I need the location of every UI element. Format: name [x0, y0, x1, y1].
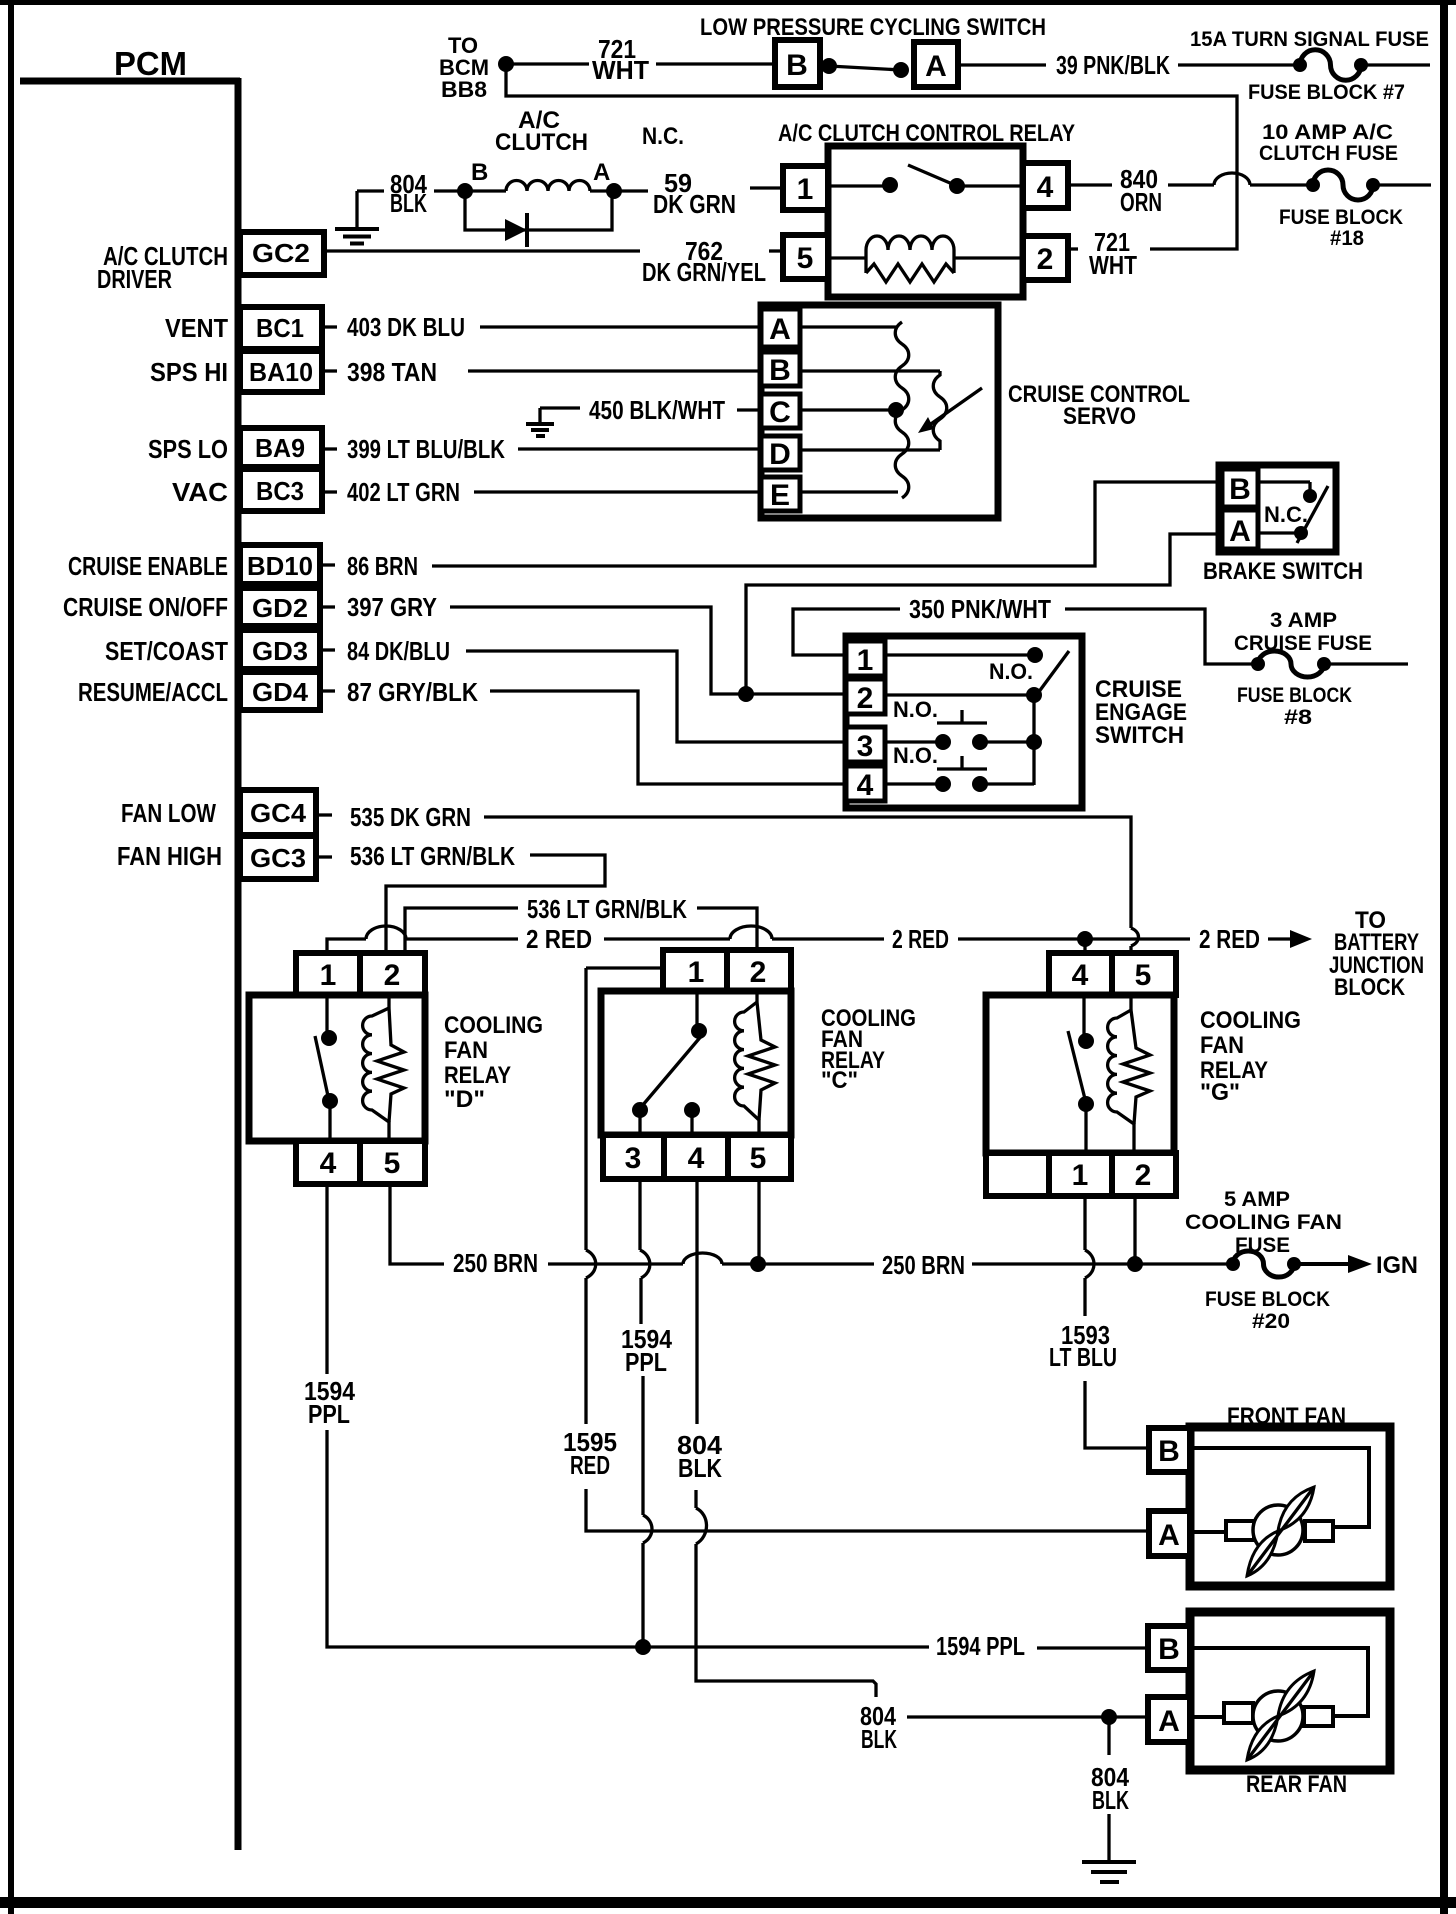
pin BD10 CRUISE ENABLE — [240, 545, 335, 584]
svg-text:1: 1 — [688, 956, 705, 989]
svg-text:A: A — [1158, 1519, 1180, 1552]
svg-text:A: A — [925, 50, 947, 83]
svg-text:ORN: ORN — [1120, 187, 1162, 217]
wire relay C pin 1 feed — [586, 966, 663, 969]
label 59 DK GRN — [653, 168, 783, 219]
svg-text:C: C — [769, 396, 791, 429]
svg-text:BC3: BC3 — [256, 476, 304, 506]
label 840 ORN — [1068, 164, 1214, 217]
wire 721 WHT pin2 — [1065, 227, 1137, 280]
svg-text:3: 3 — [857, 730, 874, 763]
svg-text:BLOCK: BLOCK — [1334, 974, 1406, 1001]
fuse 10 amp A/C clutch — [1306, 170, 1431, 200]
svg-text:1594 PPL: 1594 PPL — [936, 1631, 1025, 1661]
rear fan motor — [1148, 1612, 1390, 1770]
svg-text:3 AMP: 3 AMP — [1270, 609, 1337, 632]
svg-text:COOLING FAN: COOLING FAN — [1185, 1211, 1342, 1234]
svg-text:B: B — [1229, 473, 1251, 506]
wire 1594 PPL from relay D pin 4 — [304, 1184, 636, 1647]
svg-text:#20: #20 — [1252, 1310, 1290, 1333]
pin GD4 RESUME/ACCL — [240, 672, 335, 710]
svg-text:DK GRN/YEL: DK GRN/YEL — [642, 257, 766, 287]
svg-text:GD2: GD2 — [252, 593, 308, 623]
svg-text:536 LT GRN/BLK: 536 LT GRN/BLK — [350, 841, 515, 871]
svg-text:39 PNK/BLK: 39 PNK/BLK — [1056, 50, 1170, 80]
A/C clutch control relay — [783, 146, 1068, 297]
svg-text:"G": "G" — [1200, 1079, 1240, 1106]
svg-text:402 LT GRN: 402 LT GRN — [347, 477, 460, 507]
svg-text:SET/COAST: SET/COAST — [105, 636, 228, 666]
diode across A/C clutch — [465, 191, 612, 247]
svg-text:A: A — [1229, 515, 1251, 548]
svg-text:FUSE BLOCK: FUSE BLOCK — [1279, 206, 1403, 229]
wire 403 DK BLU — [347, 312, 761, 342]
fuse 5 amp cooling fan — [1226, 1251, 1372, 1277]
svg-text:WHT: WHT — [592, 55, 649, 85]
svg-text:2 RED: 2 RED — [526, 924, 592, 954]
svg-text:SERVO: SERVO — [1063, 403, 1136, 430]
svg-text:BRAKE SWITCH: BRAKE SWITCH — [1203, 558, 1363, 585]
svg-text:450 BLK/WHT: 450 BLK/WHT — [589, 395, 725, 425]
svg-text:5: 5 — [384, 1147, 401, 1180]
svg-text:FAN LOW: FAN LOW — [121, 798, 216, 828]
svg-text:CRUISE FUSE: CRUISE FUSE — [1234, 632, 1372, 655]
svg-text:CRUISE ENABLE: CRUISE ENABLE — [68, 551, 228, 581]
svg-text:A: A — [593, 159, 610, 186]
wire 1593 LT BLU from relay G pin 1 to front fan B — [1049, 1196, 1149, 1448]
label FUSE BLOCK #20 — [1205, 1288, 1330, 1333]
svg-text:E: E — [770, 479, 790, 512]
svg-text:1: 1 — [797, 173, 814, 206]
svg-text:398 TAN: 398 TAN — [347, 357, 437, 387]
wire 397 GRY — [347, 592, 846, 702]
svg-text:4: 4 — [688, 1142, 705, 1175]
svg-text:SPS LO: SPS LO — [148, 434, 228, 464]
svg-text:FUSE BLOCK #7: FUSE BLOCK #7 — [1248, 81, 1405, 104]
svg-text:B: B — [786, 49, 808, 82]
wire 450 BLK/WHT — [589, 395, 761, 425]
low pressure cycling switch — [775, 40, 958, 87]
svg-text:N.C.: N.C. — [642, 123, 684, 150]
cooling fan relay C — [601, 950, 791, 1179]
pin GC4 FAN LOW — [240, 790, 332, 835]
wire 402 LT GRN — [347, 477, 761, 507]
svg-text:GD4: GD4 — [252, 677, 309, 707]
svg-text:CLUTCH FUSE: CLUTCH FUSE — [1259, 142, 1398, 165]
wire 250 BRN bus — [390, 1184, 1227, 1280]
svg-text:BLK: BLK — [678, 1453, 722, 1483]
svg-text:GD3: GD3 — [252, 636, 308, 666]
svg-text:B: B — [471, 159, 488, 186]
svg-text:2: 2 — [1135, 1159, 1152, 1192]
wire 398 TAN — [347, 357, 761, 387]
svg-text:DK GRN: DK GRN — [653, 189, 736, 219]
label 3 AMP CRUISE FUSE — [1234, 609, 1372, 655]
svg-text:IGN: IGN — [1376, 1252, 1418, 1279]
svg-text:PPL: PPL — [625, 1347, 667, 1377]
svg-text:4: 4 — [857, 769, 874, 802]
label 10 AMP A/C CLUTCH FUSE — [1259, 121, 1398, 165]
svg-text:WHT: WHT — [1089, 250, 1137, 280]
wire relay C pin 5 to 250 BRN — [757, 1179, 760, 1258]
label TO BATTERY JUNCTION BLOCK — [1329, 907, 1424, 1001]
label CRUISE ENGAGE SWITCH — [1095, 676, 1187, 749]
svg-text:2 RED: 2 RED — [1199, 924, 1260, 954]
svg-text:403 DK BLU: 403 DK BLU — [347, 312, 465, 342]
label 762 DK GRN/YEL — [642, 236, 783, 287]
svg-text:87 GRY/BLK: 87 GRY/BLK — [347, 677, 478, 707]
svg-text:D: D — [769, 438, 791, 471]
svg-text:N.O.: N.O. — [893, 743, 938, 768]
wire 804 BLK from relay C pin 4 — [677, 1179, 876, 1697]
svg-text:A: A — [769, 313, 791, 346]
svg-text:BLK: BLK — [1092, 1785, 1129, 1815]
wire 1594 PPL to rear fan B — [635, 1631, 1149, 1661]
wire 399 LT BLU/BLK — [347, 434, 761, 464]
pin BA10 SPS HI — [240, 351, 337, 392]
svg-text:FUSE BLOCK: FUSE BLOCK — [1205, 1288, 1330, 1311]
pin GD3 SET/COAST — [240, 630, 335, 669]
svg-text:"C": "C" — [821, 1067, 858, 1094]
svg-text:N.C.: N.C. — [1264, 502, 1308, 527]
svg-text:FAN HIGH: FAN HIGH — [117, 841, 222, 871]
svg-text:BA9: BA9 — [255, 433, 305, 463]
wire 535 DK GRN to relay G pin 5 — [350, 802, 1139, 956]
pin GC2 A/C CLUTCH DRIVER — [240, 232, 324, 275]
label COOLING FAN RELAY G — [1200, 1007, 1301, 1106]
wire 536 LT GRN/BLK to relay C pin 2 — [405, 894, 757, 956]
svg-text:SPS HI: SPS HI — [150, 357, 228, 387]
svg-text:CLUTCH: CLUTCH — [495, 129, 588, 156]
cruise engage switch — [846, 636, 1082, 808]
wire 804 BLK to rear fan A — [860, 1701, 1145, 1754]
label CRUISE CONTROL SERVO — [1008, 381, 1190, 430]
svg-text:"D": "D" — [444, 1086, 485, 1113]
svg-text:5: 5 — [1135, 959, 1152, 992]
svg-text:B: B — [1158, 1435, 1180, 1468]
svg-text:B: B — [1158, 1633, 1180, 1666]
pin GC3 FAN HIGH — [240, 836, 332, 879]
svg-text:535 DK GRN: 535 DK GRN — [350, 802, 471, 832]
wire 2 RED bus — [327, 924, 1312, 956]
svg-text:#18: #18 — [1330, 227, 1364, 250]
svg-text:4: 4 — [320, 1147, 337, 1180]
label 5 AMP COOLING FAN FUSE — [1185, 1188, 1342, 1257]
brake switch — [1219, 465, 1336, 552]
svg-text:2: 2 — [750, 956, 767, 989]
wire 39 PNK/BLK — [958, 50, 1294, 80]
svg-text:5 AMP: 5 AMP — [1224, 1188, 1290, 1211]
wire relay G pin 2 to 250 BRN — [1133, 1196, 1136, 1258]
svg-text:BA10: BA10 — [249, 357, 313, 387]
svg-text:BB8: BB8 — [441, 77, 487, 102]
svg-text:B: B — [769, 354, 791, 387]
wire 1594 PPL from relay C pin 3 — [621, 1179, 672, 1642]
front fan motor — [1149, 1427, 1390, 1586]
wire hop 840 ORN over 721 WHT — [1214, 173, 1250, 185]
label FUSE BLOCK #8 — [1237, 684, 1352, 729]
fuse 15A turn signal — [1293, 50, 1430, 80]
svg-text:GC4: GC4 — [250, 798, 307, 828]
svg-text:BD10: BD10 — [247, 551, 313, 581]
svg-text:250 BRN: 250 BRN — [453, 1248, 538, 1278]
svg-text:N.O.: N.O. — [989, 659, 1033, 684]
svg-text:15A TURN SIGNAL FUSE: 15A TURN SIGNAL FUSE — [1190, 28, 1429, 51]
label COOLING FAN RELAY C — [821, 1005, 916, 1094]
svg-text:RED: RED — [570, 1450, 610, 1480]
svg-text:2 RED: 2 RED — [892, 924, 949, 954]
svg-text:GC2: GC2 — [252, 238, 310, 268]
ground for 450 BLK/WHT — [526, 408, 580, 436]
svg-text:86 BRN: 86 BRN — [347, 551, 418, 581]
svg-text:FAN: FAN — [1200, 1032, 1244, 1059]
svg-text:536 LT GRN/BLK: 536 LT GRN/BLK — [527, 894, 687, 924]
svg-text:REAR FAN: REAR FAN — [1246, 1771, 1347, 1798]
ground for 804 BLK — [335, 191, 384, 244]
pin BC1 VENT — [240, 307, 337, 349]
svg-text:BLK: BLK — [861, 1724, 897, 1754]
node TO BCM BB8 — [439, 33, 514, 102]
pin GD2 CRUISE ON/OFF — [240, 588, 335, 626]
label COOLING FAN RELAY D — [444, 1012, 543, 1113]
svg-text:GC3: GC3 — [250, 843, 306, 873]
svg-text:397 GRY: 397 GRY — [347, 592, 437, 622]
svg-text:#8: #8 — [1284, 706, 1312, 729]
svg-text:84 DK/BLU: 84 DK/BLU — [347, 636, 450, 666]
svg-text:DRIVER: DRIVER — [97, 264, 172, 294]
svg-text:2: 2 — [384, 959, 401, 992]
pin BC3 VAC — [240, 469, 337, 511]
wire 804 BLK to ground — [1091, 1717, 1129, 1862]
svg-text:LOW PRESSURE CYCLING SWITCH: LOW PRESSURE CYCLING SWITCH — [700, 14, 1046, 41]
svg-text:SWITCH: SWITCH — [1095, 722, 1184, 749]
wire cruise switch pin2 to brake switch A — [746, 534, 1222, 692]
svg-text:1: 1 — [1072, 1159, 1089, 1192]
cooling fan relay G — [986, 953, 1176, 1196]
svg-text:N.O.: N.O. — [893, 697, 938, 722]
svg-text:BLK: BLK — [390, 188, 427, 218]
PCM module outline — [20, 78, 240, 1850]
svg-text:5: 5 — [750, 1142, 767, 1175]
wire 721 WHT to low pressure switch — [513, 34, 775, 85]
wire BCM to fuse block 7 feed — [506, 64, 1237, 249]
svg-text:RESUME/ACCL: RESUME/ACCL — [78, 677, 228, 707]
svg-text:PPL: PPL — [308, 1399, 350, 1429]
label FUSE BLOCK #18 — [1279, 206, 1403, 250]
wire 86 BRN to brake switch B — [347, 482, 1219, 581]
svg-text:350 PNK/WHT: 350 PNK/WHT — [909, 594, 1051, 624]
svg-text:VAC: VAC — [172, 477, 228, 507]
svg-text:COOLING: COOLING — [444, 1012, 543, 1039]
wire 87 GRY/BLK — [347, 677, 846, 784]
svg-text:RELAY: RELAY — [444, 1062, 511, 1089]
svg-text:FUSE BLOCK: FUSE BLOCK — [1237, 684, 1352, 707]
svg-text:2: 2 — [1037, 243, 1054, 276]
A/C clutch coil — [434, 159, 648, 199]
svg-text:A: A — [1158, 1705, 1180, 1738]
svg-text:250 BRN: 250 BRN — [882, 1250, 965, 1280]
svg-text:2: 2 — [857, 682, 874, 715]
svg-text:LT BLU: LT BLU — [1049, 1342, 1117, 1372]
wire 350 PNK/WHT to cruise fuse — [793, 594, 1252, 664]
wire 84 DK/BLU — [347, 636, 846, 742]
svg-text:4: 4 — [1072, 959, 1089, 992]
fuse 3 amp cruise — [1251, 651, 1408, 677]
label A/C CLUTCH — [495, 107, 588, 156]
ground symbol rear fan — [1082, 1862, 1136, 1882]
cruise control servo — [761, 305, 998, 518]
svg-text:BC1: BC1 — [256, 313, 304, 343]
svg-text:5: 5 — [797, 242, 814, 275]
svg-text:COOLING: COOLING — [1200, 1007, 1301, 1034]
cooling fan relay D — [249, 953, 425, 1184]
svg-text:1: 1 — [857, 644, 874, 677]
svg-text:VENT: VENT — [165, 313, 228, 343]
svg-text:3: 3 — [625, 1142, 642, 1175]
svg-text:FAN: FAN — [444, 1037, 488, 1064]
pin BA9 SPS LO — [240, 428, 337, 467]
label 804 BLK — [390, 169, 427, 218]
svg-text:4: 4 — [1037, 171, 1054, 204]
svg-text:399 LT BLU/BLK: 399 LT BLU/BLK — [347, 434, 505, 464]
wire 536 LT GRN/BLK from GC3 to relay D pin 2 — [350, 841, 605, 956]
svg-text:PCM: PCM — [114, 45, 187, 82]
wire 1595 RED from relay C pin 1 to front fan A — [563, 968, 1149, 1531]
svg-text:1: 1 — [320, 959, 337, 992]
svg-text:10 AMP A/C: 10 AMP A/C — [1262, 121, 1393, 144]
wire GC2 to 762 DK GRN/YEL — [324, 249, 640, 252]
svg-text:CRUISE ON/OFF: CRUISE ON/OFF — [63, 592, 228, 622]
